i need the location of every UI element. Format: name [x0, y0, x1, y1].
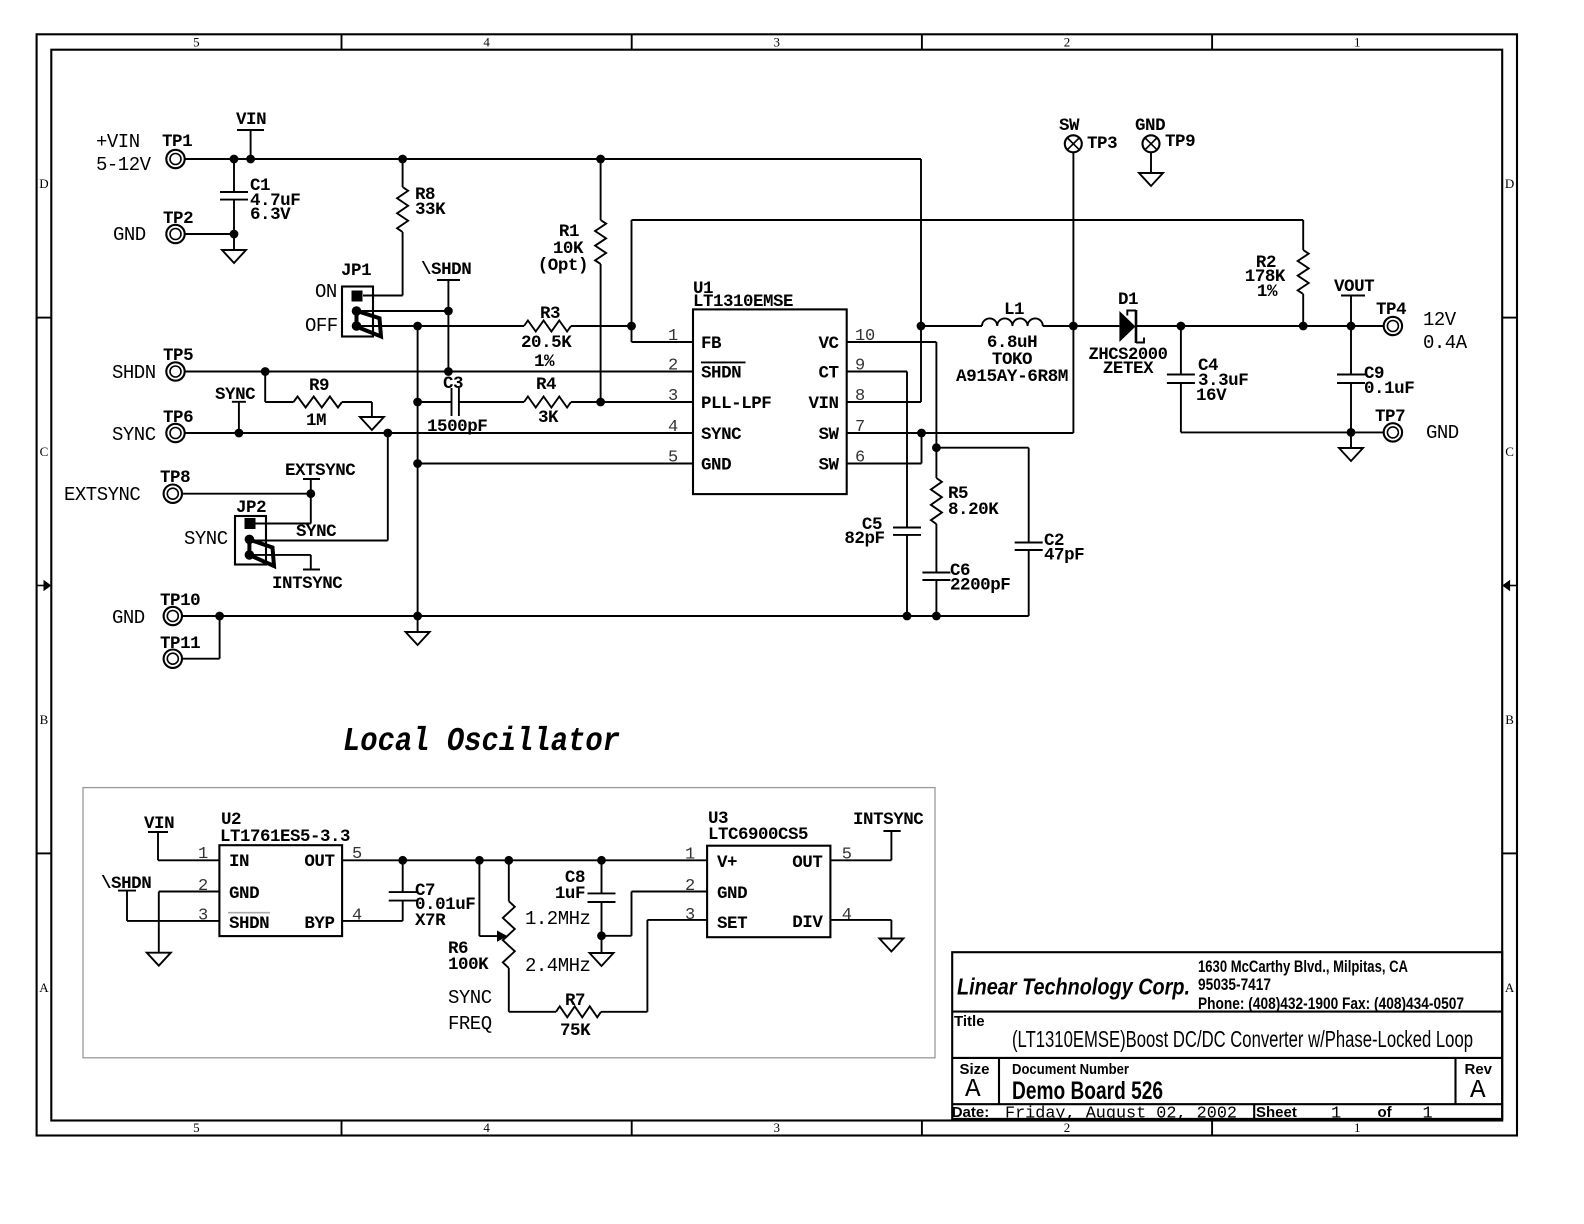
svg-text:FB: FB	[701, 334, 722, 354]
svg-text:1: 1	[198, 845, 208, 864]
net label VIN LO	[144, 814, 174, 860]
svg-text:4: 4	[483, 1120, 490, 1135]
svg-text:Sheet: Sheet	[1256, 1104, 1297, 1121]
U3 pin numbers	[685, 846, 852, 926]
ground main rail	[406, 616, 430, 645]
svg-text:16V: 16V	[1196, 386, 1227, 406]
net label \SHDN	[421, 260, 471, 372]
U1 right pin numbers	[855, 327, 875, 468]
svg-text:OFF: OFF	[305, 315, 338, 337]
svg-text:B: B	[40, 712, 49, 727]
capacitor C3	[413, 374, 524, 437]
svg-text:EXTSYNC: EXTSYNC	[64, 484, 140, 506]
svg-text:95035-7417: 95035-7417	[1198, 975, 1271, 994]
svg-text:R3: R3	[540, 304, 560, 324]
svg-text:A915AY-6R8M: A915AY-6R8M	[956, 367, 1068, 387]
svg-text:BYP: BYP	[304, 914, 334, 934]
svg-text:INTSYNC: INTSYNC	[853, 810, 924, 830]
svg-text:(LT1310EMSE)Boost DC/DC Conver: (LT1310EMSE)Boost DC/DC Converter w/Phas…	[1012, 1026, 1473, 1052]
testpoint TP9	[1135, 116, 1195, 186]
U2 pin names	[228, 852, 335, 934]
svg-text:GND: GND	[701, 456, 731, 476]
svg-text:1: 1	[1354, 35, 1361, 50]
ground output	[1339, 432, 1363, 461]
svg-text:ZETEX: ZETEX	[1103, 359, 1154, 379]
wire VC node line	[932, 443, 1029, 452]
svg-text:2: 2	[1064, 35, 1071, 50]
U1 right pin names	[808, 334, 839, 476]
svg-text:OUT: OUT	[792, 853, 822, 873]
svg-text:C: C	[40, 444, 49, 459]
svg-text:SYNC: SYNC	[296, 522, 337, 542]
svg-text:C3: C3	[443, 374, 463, 394]
svg-text:R9: R9	[309, 376, 329, 396]
ground U2	[147, 953, 171, 966]
wire U3 GND pin2	[602, 892, 708, 936]
svg-text:GND: GND	[112, 607, 145, 629]
svg-text:TP6: TP6	[163, 408, 193, 428]
svg-text:SW: SW	[1059, 116, 1080, 136]
svg-text:1: 1	[668, 327, 678, 346]
svg-text:1: 1	[1354, 1120, 1361, 1135]
svg-text:VC: VC	[818, 334, 839, 354]
svg-text:1%: 1%	[534, 352, 555, 372]
svg-text:+VIN: +VIN	[96, 131, 140, 153]
svg-text:TP10: TP10	[160, 591, 200, 611]
svg-text:1.2MHz: 1.2MHz	[525, 908, 590, 930]
resistor R3	[357, 304, 632, 372]
capacitor C2	[1015, 448, 1085, 616]
svg-text:LTC6900CS5: LTC6900CS5	[708, 825, 808, 845]
svg-text:Phone: (408)432-1900 Fax: (408: Phone: (408)432-1900 Fax: (408)434-0507	[1198, 994, 1464, 1013]
svg-text:CT: CT	[818, 364, 838, 384]
svg-text:1M: 1M	[306, 411, 326, 431]
svg-text:8.20K: 8.20K	[948, 500, 999, 520]
title block company	[957, 957, 1464, 1013]
svg-text:R7: R7	[565, 991, 585, 1011]
wire vertical gnd riser x418	[417, 326, 419, 616]
wire TP11 riser	[181, 616, 220, 659]
ground R9	[360, 402, 384, 430]
svg-text:Local Oscillator: Local Oscillator	[343, 723, 620, 760]
testpoint TP6	[112, 408, 193, 446]
svg-text:Date:: Date:	[952, 1104, 990, 1121]
testpoint TP5	[112, 346, 193, 384]
svg-text:TP4: TP4	[1376, 300, 1406, 320]
svg-text:3: 3	[774, 35, 781, 50]
svg-text:Linear Technology Corp.: Linear Technology Corp.	[957, 974, 1190, 1000]
wire VIN to U2	[158, 859, 219, 861]
svg-text:TP11: TP11	[160, 634, 200, 654]
testpoint TP3	[1059, 116, 1117, 330]
wire U3 DIV pin4	[830, 920, 891, 939]
svg-text:L1: L1	[1004, 300, 1024, 320]
svg-text:5: 5	[842, 846, 852, 865]
net label EXTSYNC	[285, 461, 356, 481]
capacitor C9	[1337, 326, 1414, 432]
svg-text:0.1uF: 0.1uF	[1364, 379, 1414, 399]
wire BYP pin4	[342, 920, 403, 922]
svg-text:of: of	[1378, 1104, 1393, 1121]
svg-text:1630 McCarthy Blvd., Milpitas,: 1630 McCarthy Blvd., Milpitas, CA	[1198, 957, 1408, 976]
wire SHDN pin2 line	[184, 367, 693, 376]
svg-text:82pF: 82pF	[844, 529, 884, 549]
svg-text:20.5K: 20.5K	[521, 333, 572, 353]
svg-text:47pF: 47pF	[1044, 546, 1084, 566]
svg-text:3: 3	[198, 907, 208, 926]
svg-text:A: A	[965, 1074, 981, 1104]
wire FB feedback to R2	[627, 220, 1303, 342]
svg-text:\SHDN: \SHDN	[421, 260, 471, 280]
U1 left pin names	[701, 334, 771, 476]
svg-text:6.3V: 6.3V	[250, 205, 291, 225]
svg-text:TP9: TP9	[1165, 132, 1195, 152]
wire GND rail	[181, 612, 1029, 621]
op-amp U1 LT1310EMSE	[693, 279, 847, 494]
svg-text:SHDN: SHDN	[112, 362, 156, 384]
svg-text:2: 2	[685, 877, 695, 896]
svg-text:DIV: DIV	[792, 913, 823, 933]
svg-text:2: 2	[668, 357, 678, 376]
jumper JP1	[305, 261, 381, 337]
wire SET pin3	[647, 919, 707, 921]
svg-text:1uF: 1uF	[555, 884, 585, 904]
title block size	[960, 1061, 990, 1104]
title block doc number	[1012, 1061, 1163, 1105]
svg-text:10: 10	[855, 327, 875, 346]
svg-text:12V: 12V	[1423, 309, 1457, 331]
svg-text:Demo Board 526: Demo Board 526	[1012, 1077, 1163, 1105]
testpoint TP7	[1375, 407, 1459, 444]
svg-text:6: 6	[855, 449, 865, 468]
svg-text:SET: SET	[717, 914, 747, 934]
svg-text:GND: GND	[1426, 422, 1459, 444]
svg-text:A: A	[39, 980, 49, 995]
capacitor C8	[555, 860, 616, 940]
net label VIN	[236, 110, 266, 159]
svg-text:IN: IN	[229, 852, 249, 872]
svg-text:VIN: VIN	[144, 814, 174, 834]
U1 left pin numbers	[668, 327, 678, 468]
resistor R9	[265, 372, 372, 432]
title block frame	[952, 952, 1502, 1119]
wire U3 OUT to INTSYNC	[830, 810, 924, 860]
potentiometer R6	[448, 860, 590, 1035]
svg-text:Title: Title	[954, 1013, 985, 1030]
svg-text:X7R: X7R	[415, 911, 446, 931]
svg-text:100K: 100K	[448, 955, 489, 975]
svg-text:8: 8	[855, 387, 865, 406]
svg-text:1500pF: 1500pF	[427, 417, 487, 437]
wire VC pin10	[847, 342, 937, 448]
svg-text:3: 3	[668, 387, 678, 406]
svg-text:3: 3	[685, 906, 695, 925]
diode D1 ZHCS2000	[1073, 290, 1167, 379]
wire +VIN top rail	[184, 158, 921, 160]
jumper JP2	[184, 498, 274, 566]
svg-text:SHDN: SHDN	[229, 914, 269, 934]
svg-text:5: 5	[193, 35, 200, 50]
svg-text:5: 5	[193, 1120, 200, 1135]
testpoint TP11	[160, 634, 200, 668]
svg-text:2.4MHz: 2.4MHz	[525, 955, 590, 977]
resistor R2	[1245, 220, 1309, 326]
svg-text:ON: ON	[315, 281, 337, 303]
svg-text:VIN: VIN	[808, 394, 838, 414]
svg-text:GND: GND	[1135, 116, 1165, 136]
wire VIN vertical to U1 pin 8	[847, 159, 921, 402]
svg-text:1%: 1%	[1257, 282, 1278, 302]
capacitor C6	[922, 561, 1010, 616]
svg-text:4: 4	[842, 906, 852, 925]
svg-text:5: 5	[668, 449, 678, 468]
svg-text:GND: GND	[113, 224, 146, 246]
testpoint TP1	[96, 131, 192, 176]
svg-text:VOUT: VOUT	[1334, 277, 1374, 297]
svg-text:9: 9	[855, 357, 865, 376]
capacitor C1	[220, 159, 300, 234]
title block date	[952, 1104, 1240, 1124]
svg-text:SYNC: SYNC	[184, 528, 228, 550]
testpoint TP2	[113, 209, 193, 246]
net label INTSYNC lower	[249, 555, 343, 594]
svg-text:SW: SW	[818, 456, 839, 476]
resistor R5	[931, 448, 999, 573]
svg-text:TP2: TP2	[163, 209, 193, 229]
wire U2 GND pin2	[159, 892, 220, 953]
op-amp U3 LTC6900CS5	[707, 809, 830, 937]
ground C1	[222, 234, 246, 263]
svg-text:4: 4	[483, 35, 490, 50]
svg-text:75K: 75K	[560, 1021, 591, 1041]
U2 pin numbers	[198, 845, 362, 926]
svg-text:VIN: VIN	[236, 110, 266, 130]
svg-text:1: 1	[685, 846, 695, 865]
ground C8	[590, 936, 614, 966]
wire TP2 to C1	[184, 230, 238, 239]
net label SYNC at TP6	[215, 385, 256, 437]
svg-text:33K: 33K	[415, 200, 446, 220]
wire VOUT line	[1136, 322, 1385, 331]
svg-text:SYNC: SYNC	[112, 424, 156, 446]
node rail junctions	[230, 155, 605, 164]
resistor R4	[524, 375, 693, 428]
svg-text:OUT: OUT	[304, 852, 334, 872]
wire SW pins	[847, 326, 1074, 464]
svg-text:Document Number: Document Number	[1012, 1061, 1129, 1078]
svg-text:V+: V+	[717, 853, 737, 873]
svg-text:PLL-LPF: PLL-LPF	[701, 394, 771, 414]
node R3 line junction	[413, 322, 422, 331]
svg-text:FREQ: FREQ	[448, 1013, 492, 1035]
svg-text:4: 4	[668, 418, 678, 437]
local oscillator box	[83, 788, 935, 1058]
svg-text:2200pF: 2200pF	[950, 576, 1010, 596]
wire output gnd line	[1181, 428, 1385, 437]
wire JP1 middle pin to \SHDN	[357, 307, 453, 316]
svg-text:INTSYNC: INTSYNC	[272, 574, 343, 594]
op-amp U2 LT1761ES5-3.3	[219, 810, 350, 936]
testpoint TP4	[1376, 300, 1468, 354]
svg-text:TP1: TP1	[162, 132, 192, 152]
svg-text:D: D	[39, 176, 48, 191]
wire U2 OUT line	[342, 856, 707, 865]
svg-text:B: B	[1505, 712, 1514, 727]
svg-text:SW: SW	[818, 425, 839, 445]
capacitor C5	[844, 515, 921, 616]
svg-text:4: 4	[352, 907, 362, 926]
resistor R8	[397, 159, 446, 296]
wire JP2 middle pin to SYNC net	[249, 433, 387, 542]
svg-text:SHDN: SHDN	[701, 364, 741, 384]
svg-text:A: A	[1470, 1075, 1486, 1105]
title block title	[954, 1013, 1473, 1052]
wire GND pin5 line	[413, 459, 693, 468]
title block rev	[1465, 1061, 1493, 1105]
svg-text:TP7: TP7	[1375, 407, 1405, 427]
svg-text:D: D	[1505, 176, 1514, 191]
U3 pin names	[717, 853, 823, 934]
resistor R1	[538, 159, 606, 402]
capacitor C4	[1167, 326, 1248, 432]
svg-text:SYNC: SYNC	[448, 987, 492, 1009]
net label \SHDN LO	[101, 874, 151, 921]
svg-text:0.4A: 0.4A	[1423, 332, 1468, 354]
svg-text:3: 3	[774, 1120, 781, 1135]
svg-text:EXTSYNC: EXTSYNC	[285, 461, 356, 481]
svg-text:LT1761ES5-3.3: LT1761ES5-3.3	[220, 827, 350, 847]
svg-text:TP8: TP8	[160, 468, 190, 488]
svg-text:SYNC: SYNC	[701, 425, 742, 445]
section label Local Oscillator	[343, 723, 620, 760]
svg-text:TP5: TP5	[163, 346, 193, 366]
svg-text:R4: R4	[536, 375, 556, 395]
wire CT pin9 to C5	[847, 372, 907, 528]
svg-text:5-12V: 5-12V	[96, 154, 152, 176]
svg-text:JP2: JP2	[236, 498, 266, 518]
svg-text:7: 7	[855, 418, 865, 437]
svg-text:3K: 3K	[538, 408, 559, 428]
svg-text:C: C	[1505, 444, 1514, 459]
net label VOUT	[1334, 277, 1374, 326]
svg-text:2: 2	[198, 877, 208, 896]
inductor L1	[917, 300, 1074, 387]
testpoint TP8	[64, 468, 190, 506]
wire SHDN to U2 pin3	[127, 920, 219, 922]
svg-text:TP3: TP3	[1087, 134, 1117, 154]
svg-text:GND: GND	[229, 884, 259, 904]
svg-text:(Opt): (Opt)	[538, 256, 588, 276]
svg-text:GND: GND	[717, 884, 747, 904]
svg-text:A: A	[1505, 980, 1515, 995]
testpoint TP10	[112, 591, 200, 629]
title block sheet	[1256, 1104, 1441, 1124]
capacitor C7	[389, 860, 476, 931]
ground DIV	[879, 939, 903, 952]
wire EXTSYNC line	[181, 479, 315, 524]
svg-text:D1: D1	[1118, 290, 1138, 310]
wire R8 to JP1 ON pin	[363, 295, 403, 297]
svg-text:JP1: JP1	[341, 261, 371, 281]
svg-text:LT1310EMSE: LT1310EMSE	[693, 292, 793, 312]
resistor R7	[509, 920, 648, 1041]
wire SYNC pin4 line	[184, 429, 693, 438]
